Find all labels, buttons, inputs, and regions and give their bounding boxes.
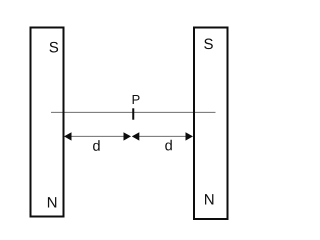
right distance label d	[165, 140, 172, 151]
right distance arrow right head	[186, 132, 194, 140]
left distance arrow right head	[124, 132, 132, 140]
left magnet body	[31, 28, 64, 217]
pole label N (right magnet)	[205, 194, 213, 204]
right distance arrow left head	[132, 132, 140, 140]
pole label S (left magnet)	[49, 42, 58, 53]
left distance arrow shaft	[68, 135, 127, 137]
pole label S (right magnet)	[204, 39, 213, 50]
left distance label d	[93, 140, 100, 151]
right distance arrow shaft	[136, 135, 190, 137]
axis line through P	[51, 111, 216, 113]
point P tick mark	[132, 108, 134, 119]
pole label N (left magnet)	[48, 197, 56, 207]
point P label	[133, 95, 140, 104]
left distance arrow left head	[64, 132, 72, 140]
right magnet body	[194, 28, 228, 220]
